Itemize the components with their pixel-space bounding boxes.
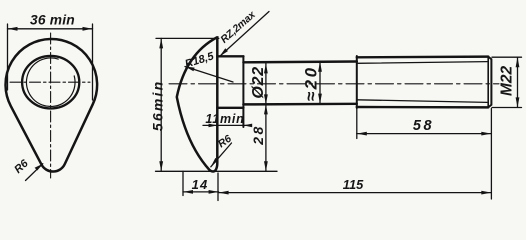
dimension 58: dimension line bbox=[357, 133, 492, 135]
right extension line (thread end) bbox=[490, 109, 492, 200]
dimension 11min: dimension line bbox=[203, 124, 250, 126]
svg-text:58: 58 bbox=[413, 118, 434, 134]
dimension 115: left arrow bbox=[219, 191, 229, 195]
svg-text:14: 14 bbox=[192, 177, 209, 192]
dimension 28: bottom arrow bbox=[264, 161, 268, 171]
svg-text:36 min: 36 min bbox=[30, 12, 75, 27]
svg-text:56min: 56min bbox=[150, 80, 166, 131]
bolt axis centerline bbox=[169, 83, 499, 85]
side view: thread minor top line bbox=[357, 62, 487, 64]
dimension 58: right arrow bbox=[481, 132, 491, 136]
dimension 14: left extension line bbox=[182, 171, 184, 195]
dimension ~20: top arrow bbox=[318, 62, 322, 72]
svg-text:RZ,2max: RZ,2max bbox=[219, 9, 259, 46]
svg-text:Ø22: Ø22 bbox=[250, 66, 267, 99]
dimension M22: top arrow bbox=[516, 57, 520, 67]
dimension 115: right arrow bbox=[481, 191, 491, 195]
leader R18,5 bbox=[185, 67, 233, 83]
side view: thread major top edge bbox=[357, 55, 488, 58]
dimension M22: bottom extension line bbox=[492, 107, 522, 109]
left view: eye hole thick circle bbox=[22, 56, 79, 109]
dimension 115: dimension line bbox=[219, 192, 492, 194]
side view: shank top edge bbox=[243, 60, 356, 63]
side view: seat/shank shoulder bbox=[242, 56, 244, 127]
side view: thread end face bbox=[488, 57, 491, 108]
dimension 56min: top extension line bbox=[156, 37, 219, 39]
dimension O22: top arrow bbox=[264, 63, 268, 73]
dimension O22/28: shared dimension line bbox=[265, 63, 267, 171]
dimension M22: bottom arrow bbox=[516, 97, 520, 107]
dimension 56min: dimension line bbox=[160, 38, 162, 171]
left view: vertical centerline bbox=[50, 33, 52, 178]
dimension O22: bottom arrow bbox=[264, 94, 268, 104]
dimension 11min: left outside arrow bbox=[209, 124, 218, 128]
dimension 11min: right outside arrow bbox=[243, 124, 252, 128]
bottom extension line from head tip bbox=[156, 170, 278, 172]
dimension ~20: bottom arrow bbox=[318, 94, 322, 104]
svg-text:M22: M22 bbox=[499, 65, 516, 96]
left view: horizontal centerline bbox=[10, 81, 90, 83]
side view: shank bottom edge bbox=[243, 103, 356, 106]
svg-text:≈20: ≈20 bbox=[302, 65, 321, 101]
left view: outer teardrop outline bbox=[6, 39, 98, 172]
leader Rz2max bbox=[220, 12, 270, 57]
dimension 56min: bottom arrow bbox=[159, 161, 163, 171]
side view: thread major bottom edge bbox=[357, 106, 488, 109]
svg-text:115: 115 bbox=[343, 177, 364, 192]
dimension 36min: left arrow bbox=[8, 27, 18, 31]
dimension M22: top extension line bbox=[492, 56, 522, 58]
svg-text:R18,5: R18,5 bbox=[184, 50, 216, 70]
left view: eye hole thin 3/4 arc bbox=[26, 58, 75, 107]
side view: head outline bbox=[177, 37, 218, 171]
dimension 36min: right arrow bbox=[83, 27, 93, 31]
side view: seat cylinder top edge bbox=[217, 55, 243, 57]
dimension M22: dimension line bbox=[517, 57, 519, 107]
dimension 58: left arrow bbox=[357, 132, 367, 136]
svg-text:R6: R6 bbox=[12, 157, 31, 176]
leader R6 (side view) bbox=[211, 143, 232, 167]
dimension 56min: top arrow bbox=[159, 38, 163, 48]
svg-text:28: 28 bbox=[250, 124, 266, 146]
extension line below head face bbox=[217, 173, 219, 201]
dimension 28: top arrow bbox=[264, 104, 268, 114]
dimension 14: dimension line bbox=[183, 191, 219, 193]
side view: thread end chamfer line bbox=[487, 57, 489, 108]
dimension 36min: extension lines bbox=[8, 24, 93, 100]
leader R6 (left view) bbox=[26, 164, 43, 181]
dimension 14: left arrow bbox=[183, 190, 193, 194]
side view: seat cylinder bottom edge bbox=[217, 107, 243, 109]
dimension 36min: dimension line bbox=[8, 28, 93, 30]
side view: thread start edge / 58 extension line bbox=[356, 56, 358, 108]
side view: thread minor bottom line bbox=[357, 100, 487, 103]
dimension 14: right arrow bbox=[209, 190, 219, 194]
dimension ~20: dimension line bbox=[319, 62, 321, 104]
svg-text:11min: 11min bbox=[205, 112, 244, 126]
